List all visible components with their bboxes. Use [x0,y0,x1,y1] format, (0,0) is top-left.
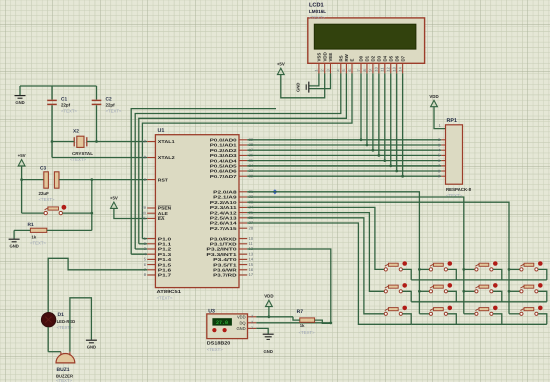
U1 pin 12 P3.2/INT0 stub [239,248,247,250]
svg-text:AT89C51: AT89C51 [157,289,182,294]
svg-text:7: 7 [356,69,361,71]
wire VDD to RP1 pin1 [434,107,446,129]
U3 DS18B20 body [207,314,248,339]
wire keypad r2c3 drop [493,291,502,302]
wire P2.0 to keypad col2 [247,192,419,314]
button keypad r3c4 [520,306,543,316]
wire P0.7 to RP1 [247,175,441,177]
wire crystal right to XTAL1 [87,141,147,143]
wire P1.0 stub link [142,238,147,240]
svg-text:VEE: VEE [328,53,333,62]
wire LCD VSS to ground [309,73,319,86]
svg-text:VDD: VDD [322,52,327,61]
svg-text:LED-RED: LED-RED [57,319,76,324]
svg-text:GND: GND [296,83,301,92]
svg-text:<TEXT>: <TEXT> [207,347,223,352]
wire D1 to BUZ1 [47,327,49,352]
svg-text:1: 1 [251,325,253,330]
U1 pin 28 P2.7/A15 stub [239,227,247,229]
wire XTAL2 [52,157,147,159]
RP1 pin 9 stub [441,175,445,177]
power +5V LCD [277,62,285,75]
wire R7 right lead [315,320,331,323]
LCD pin stub D4 [384,64,386,74]
svg-text:D0: D0 [359,55,364,61]
svg-text:D5: D5 [388,55,393,61]
svg-text:U1: U1 [158,128,165,134]
RP1 pin 4 stub [441,149,445,151]
svg-text:<TEXT>: <TEXT> [61,109,77,114]
svg-text:D3: D3 [376,55,381,61]
U1 pin 31 EA stub [147,217,155,219]
U1 pin 16 P3.6/WR stub [239,269,247,271]
U1 pin 17 P3.7/RD stub [239,274,247,276]
power +5V reset [18,153,26,166]
svg-text:R1: R1 [28,222,34,228]
svg-text:<TEXT>: <TEXT> [39,197,55,202]
junction D6 [395,170,398,173]
svg-text:+5V: +5V [110,196,118,201]
svg-text:VSS: VSS [317,53,322,62]
wire keypad r1c4 left feed [509,268,520,270]
wire R1 right [47,229,92,231]
svg-text:<TEXT>: <TEXT> [56,378,72,382]
svg-text:D4: D4 [382,55,387,61]
button keypad r1c1 [384,261,407,271]
svg-text:<TEXT>: <TEXT> [57,325,73,330]
svg-text:C2: C2 [106,97,112,103]
wire keypad r1c2 left feed [419,268,429,270]
junction keypad col4 r2 [508,290,511,293]
ground LCD sideways [296,82,309,93]
wire keypad r2c3 left feed [464,290,475,292]
svg-text:CRYSTAL: CRYSTAL [72,151,93,156]
U1 pin 32 P0.7/AD7 stub [239,175,247,177]
U3 pin GND stub [248,327,257,329]
wire RST node down [91,180,93,231]
junction D7 [401,175,404,178]
svg-text:E: E [350,59,355,62]
wire BUZ1 left lead [48,351,61,353]
wire +5V to RST rail [21,166,23,180]
svg-text:1k: 1k [32,234,37,239]
svg-text:P3.7/RD: P3.7/RD [213,273,236,278]
U1 pin 34 P0.5/AD5 stub [239,165,247,167]
wire LCD D3 riser [378,73,380,155]
svg-text:<TEXT>: <TEXT> [299,330,315,335]
wire D1 to P1.6 [48,258,147,312]
svg-text:3: 3 [325,69,330,71]
svg-text:31: 31 [142,216,147,221]
svg-text:22uF: 22uF [39,191,50,196]
svg-text:3: 3 [251,313,253,318]
svg-text:D7: D7 [400,55,405,61]
svg-text:C1: C1 [61,97,67,103]
svg-text:P2.7/A15: P2.7/A15 [210,226,238,231]
U1 pin 14 P3.4/T0 stub [239,258,247,260]
LCD pin stub D3 [378,64,380,74]
wire keypad r3c4 drop [538,314,547,325]
wire P1.2 to LCD RS [135,73,341,249]
RP1 pin 5 stub [441,154,445,156]
LCD pin stub D1 [366,64,368,74]
svg-text:GND: GND [236,326,245,331]
junction C1-crystal [51,140,54,143]
junction U3 VDD [268,315,271,318]
U1 pin 25 P2.4/A12 stub [239,212,247,214]
RP1 pin 6 stub [441,160,445,162]
svg-text:27.0: 27.0 [216,320,228,326]
svg-text:GND: GND [9,243,18,248]
wire keypad r2c1 drop [403,291,412,302]
button keypad r2c4 [520,283,543,293]
svg-text:19: 19 [142,139,147,144]
LCD pin stub RS [340,64,342,74]
svg-text:RW: RW [344,53,349,61]
LCD pin stub D6 [396,64,398,74]
wire keypad r1c3 left feed [464,268,475,270]
U1 pin 7 P1.6 stub [147,269,155,271]
U1 pin 26 P2.5/A13 stub [239,217,247,219]
wire P0.5 to RP1 [247,165,441,167]
button keypad r1c2 [429,261,452,271]
svg-text:+5V: +5V [277,62,285,67]
wire P0.3 to RP1 [247,154,441,156]
LCD screen [314,24,416,49]
wire P1.1 stub link [139,243,147,245]
wire RST rail right [59,179,147,181]
U1 pin 1 P1.0 stub [147,238,155,240]
svg-text:9: 9 [368,69,373,71]
U1 pin 4 P1.3 stub [147,253,155,255]
wire keypad r3c3 left feed [464,313,475,315]
wire R7 left lead [293,317,300,320]
U1 pin 19 XTAL1 stub [147,141,155,143]
wire keypad r1c4 drop [538,269,547,280]
wire keypad r3c4 left feed [509,313,520,315]
wire LCD D6 riser [396,73,398,171]
ground BUZ1 [86,340,97,349]
U3 pin DQ stub [248,322,257,324]
U1 pin 22 P2.1/A9 stub [239,196,247,198]
LCD pin stub VSS [318,64,320,74]
wire GND stem [19,86,21,95]
wire keypad r2c4 left feed [509,290,520,292]
U1 pin 8 P1.7 stub [147,274,155,276]
wire LCD VEE to ground [309,73,330,88]
svg-text:DS18B20: DS18B20 [207,340,231,345]
button keypad r3c2 [429,306,452,316]
U1 pin 36 P0.3/AD3 stub [239,154,247,156]
wire keypad r2c2 drop [448,291,457,302]
svg-text:VDD: VDD [264,294,273,299]
U1 pin 3 P1.2 stub [147,248,155,250]
RP1 pin 8 stub [441,170,445,172]
wire crystal left [52,141,74,143]
wire P1.0 to LCD E [142,73,352,238]
RP1 pin 3 stub [441,144,445,146]
junction DQ-R7 [329,322,332,325]
svg-text:RST: RST [158,177,169,182]
svg-text:VDD: VDD [237,314,246,319]
button keypad r3c3 [475,306,498,316]
wire R1 gnd stem [13,230,15,238]
U1 pin 2 P1.1 stub [147,243,155,245]
wire RST rail left [22,179,44,181]
wire P1.3 stub link [131,253,147,255]
junction D0 [360,138,363,141]
svg-text:2: 2 [251,319,253,324]
wire C1 top lead [51,86,53,100]
capacitor C1 [47,100,57,104]
LED D1 [41,313,55,327]
svg-text:XTAL1: XTAL1 [158,139,176,144]
junction keypad col4 r1 [508,268,511,271]
power VDD U3 [264,294,273,307]
U1 pin 13 P3.3/INT1 stub [239,253,247,255]
junction D5 [389,164,392,167]
wire button left feed [21,180,23,214]
wire P1.2 stub link [135,248,147,250]
wire C2 bottom lead [96,105,98,141]
wire VDD stem U3 [268,306,270,316]
svg-text:DQ: DQ [239,320,245,325]
svg-text:BUZ1: BUZ1 [57,367,70,373]
wire LCD D1 riser [366,73,368,145]
wire keypad r1c2 drop [448,269,457,280]
button keypad r1c3 [475,261,498,271]
button keypad r3c1 [384,306,407,316]
svg-text:GND: GND [87,344,96,349]
svg-text:RS: RS [338,55,343,61]
junction C2-XTAL1 [95,140,98,143]
LCD pin stub D7 [402,64,404,74]
wire P0.6 to RP1 [247,170,441,172]
wire button right [63,212,92,214]
svg-text:<TEXT>: <TEXT> [309,15,325,20]
ground top-left [15,96,26,105]
svg-text:D1: D1 [365,55,370,61]
wire C1 bottom lead [51,105,53,157]
node P2.0 junction diamond [273,189,278,194]
U3 led dots [212,328,216,332]
wire DQ line [256,322,331,324]
wire U3 GND lead [256,328,268,333]
buzzer BUZ1 [56,354,75,363]
svg-text:1: 1 [314,69,319,71]
U1 pin 11 P3.1/TXD stub [239,243,247,245]
junction D4 [383,159,386,162]
wire keypad r1c3 drop [493,269,502,280]
svg-text:EA: EA [158,216,165,221]
wire U3 VDD lead [256,316,293,318]
junction +5V branch [20,178,23,181]
U1 pin 6 P1.5 stub [147,264,155,266]
svg-text:D6: D6 [394,55,399,61]
wire keypad r3c2 left feed [419,313,429,315]
BUZ1 right pin [69,352,71,356]
svg-text:<TEXT>: <TEXT> [30,240,46,245]
wire keypad bus row1 [411,279,547,281]
svg-text:<TEXT>: <TEXT> [106,109,122,114]
junction D1 [366,144,369,147]
U1 pin 30 ALE stub [147,212,155,214]
wire P0.4 to RP1 [247,160,441,162]
wire P3.2 to DQ riser [247,249,331,323]
ground R1 [9,239,20,248]
wire keypad r3c1 drop [403,314,412,325]
U1 pin 10 P3.0/RXD stub [239,238,247,240]
wire +5V to LCD VDD [281,73,325,98]
U1 pin 38 P0.1/AD1 stub [239,144,247,146]
wire keypad r2c2 left feed [419,290,429,292]
capacitor C3 [44,172,59,188]
U1 pin 29 PSEN stub [147,207,155,209]
svg-text:X2: X2 [73,129,79,135]
LCD pin stub VEE [330,64,332,74]
svg-text:22pf: 22pf [106,103,116,108]
svg-text:2: 2 [320,69,325,71]
U1 pin 15 P3.5/T1 stub [239,264,247,266]
svg-text:5: 5 [341,69,346,71]
wire P2.3 to keypad row1 [247,207,384,269]
junction keypad col3 r1 [462,268,465,271]
wire P2.6 to keypad bus3 [247,223,411,324]
svg-text:RESPACK-8: RESPACK-8 [446,187,472,192]
junction keypad col3 r2 [462,290,465,293]
U1 pin 24 P2.3/A11 stub [239,206,247,208]
svg-text:1k: 1k [300,323,305,328]
svg-text:<TEXT>: <TEXT> [157,296,173,301]
svg-text:12: 12 [386,67,391,71]
svg-text:GND: GND [264,349,273,354]
crystal X2 [74,136,87,147]
RP1 pin 7 stub [441,165,445,167]
junction keypad col2 r1 [418,268,421,271]
power VDD RP1 [429,94,438,107]
U1 pin 35 P0.4/AD4 stub [239,160,247,162]
wire P2.5 to keypad row3 [247,218,384,314]
svg-text:18: 18 [142,155,147,160]
resistor R7 [300,318,315,322]
junction RST node [90,178,93,181]
U1 body [155,135,239,288]
wire keypad r2c4 drop [538,291,547,302]
wire P0.2 to RP1 [247,149,441,151]
RP1 body [446,125,463,184]
svg-text:P1.7: P1.7 [158,273,172,278]
svg-text:VDD: VDD [429,94,438,99]
button keypad r2c2 [429,283,452,293]
wire BUZ1 to ground [70,298,92,352]
wire LCD D0 riser [360,73,362,139]
RP1 pin 2 stub [441,139,445,141]
svg-text:LCD1: LCD1 [309,3,324,9]
svg-text:17: 17 [249,272,254,277]
svg-text:D1: D1 [58,312,65,318]
LCD pin stub D2 [372,64,374,74]
U3 pin VDD stub [248,316,257,318]
wire +5V to EA [114,208,147,218]
wire P1.1 to LCD RW [139,73,347,244]
LCD pin stub VDD [324,64,326,74]
wire keypad r3c2 drop [448,314,457,325]
svg-text:22pf: 22pf [61,103,71,108]
wire LCD D7 riser [402,73,404,176]
wire LCD D4 riser [384,73,386,160]
junction keypad col2 r2 [418,290,421,293]
U1 pin 33 P0.6/AD6 stub [239,170,247,172]
wire R1 left [14,229,30,231]
LCD pin stub D5 [390,64,392,74]
U1 pin 23 P2.2/A10 stub [239,201,247,203]
button keypad r1c4 [520,261,543,271]
svg-text:D2: D2 [371,55,376,61]
wire P2.4 to keypad row2 [247,213,384,292]
wire P1.3 line [131,109,276,255]
svg-text:28: 28 [249,225,254,230]
wire LCD D5 riser [390,73,392,165]
U1 pin 27 P2.6/A14 stub [239,222,247,224]
U1 pin 5 P1.4 stub [147,258,155,260]
svg-text:P0.7/AD7: P0.7/AD7 [210,174,238,179]
U3 display [212,318,232,325]
button keypad r2c1 [384,283,407,293]
BUZ1 left pin [60,352,62,356]
LCD pin stub E [351,64,353,74]
capacitor C2 [92,100,102,104]
svg-text:6: 6 [347,69,352,71]
U1 pin 37 P0.2/AD2 stub [239,149,247,151]
junction button-RST [90,212,93,215]
svg-text:11: 11 [380,67,385,71]
wire LCD D2 riser [372,73,374,150]
U1 pin 39 P0.0/AD0 stub [239,139,247,141]
svg-text:13: 13 [392,67,397,71]
U1 pin 18 XTAL2 stub [147,157,155,159]
wire keypad r3c3 drop [493,314,502,325]
svg-text:RP1: RP1 [447,118,458,124]
button reset [44,205,66,215]
svg-text:8: 8 [362,69,367,71]
wire P2.2 to keypad col4 [247,202,509,314]
U1 pin 21 P2.0/A8 stub [239,191,247,193]
wire keypad r1c1 drop [403,269,412,280]
U1 pin 9 RST stub [147,179,155,181]
wire GND rail [20,85,97,87]
svg-text:R7: R7 [297,309,304,315]
LCD pin stub RW [345,64,347,74]
wire P0.0 to RP1 [247,139,441,141]
LCD pin stub D0 [360,64,362,74]
wire P0.1 to RP1 [247,144,441,146]
wire button left [22,212,44,214]
resistor R1 [30,228,46,232]
junction D3 [377,154,380,157]
wire P2.1 to keypad col3 [247,197,464,314]
junction D2 [372,149,375,152]
svg-text:XTAL2: XTAL2 [158,155,176,160]
ground U3 [263,334,274,354]
power +5V EA [110,196,118,209]
LCD LM016L body [308,18,425,63]
button keypad r2c3 [475,283,498,293]
wire keypad bus row2 [411,301,547,303]
wire C2 top lead [96,86,98,100]
svg-text:GND: GND [15,100,24,105]
svg-text:C3: C3 [40,166,46,172]
svg-text:LM016L: LM016L [309,9,326,14]
